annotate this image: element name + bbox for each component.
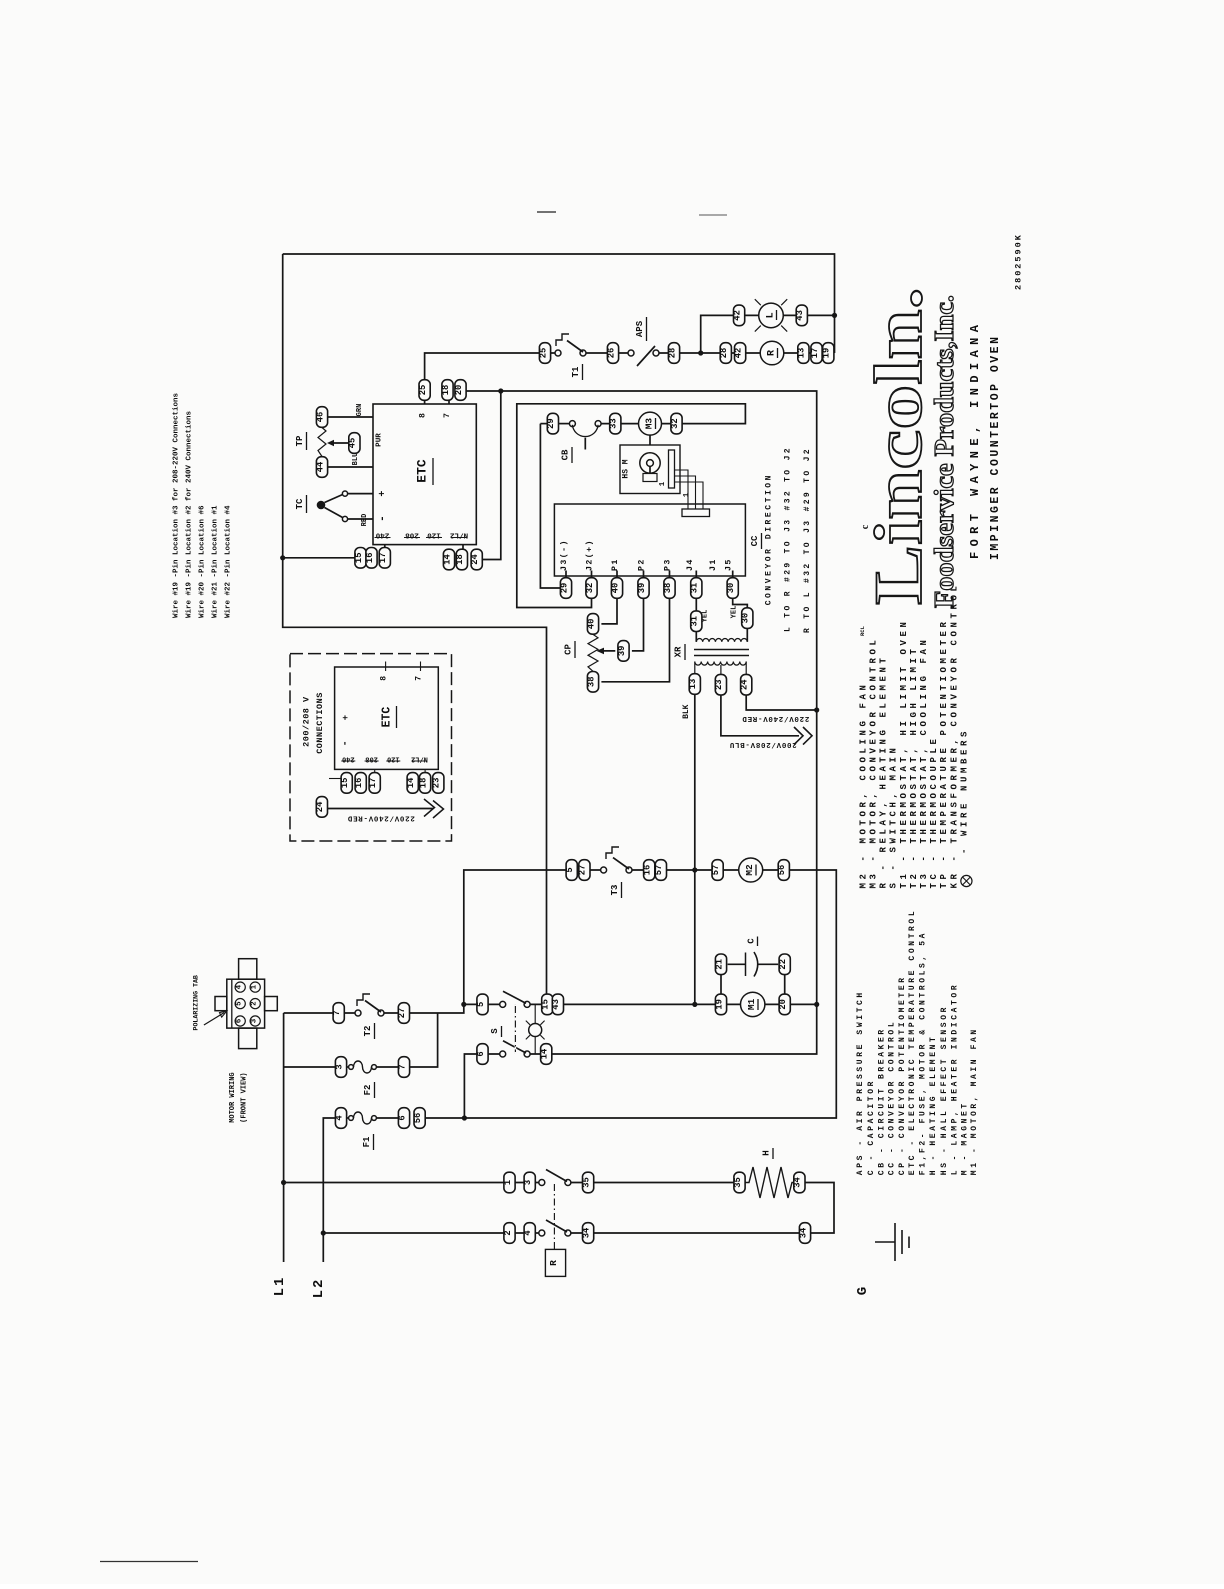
svg-text:CC - CONVEYOR CONTROL: CC - CONVEYOR CONTROL [888,1020,897,1175]
svg-text:M2 - MOTOR, COOLING FAN: M2 - MOTOR, COOLING FAN [858,681,868,888]
svg-text:-: - [377,515,389,522]
svg-text:HS M: HS M [622,459,631,478]
svg-text:J2(+): J2(+) [585,539,595,571]
svg-text:Wire #20 -Pin Location #6: Wire #20 -Pin Location #6 [198,505,206,618]
svg-text:22: 22 [778,959,788,970]
svg-text:PUR: PUR [376,433,384,447]
svg-text:YEL: YEL [702,610,710,623]
svg-text:J1: J1 [709,558,718,571]
svg-text:R - RELAY, HEATING ELEMENT: R - RELAY, HEATING ELEMENT [879,654,889,888]
svg-text:2802590K: 2802590K [1014,233,1024,290]
svg-text:44: 44 [315,461,325,472]
svg-text:M3: M3 [644,418,655,430]
svg-text:C - CAPACITOR: C - CAPACITOR [867,1079,876,1175]
svg-text:H - HEATING ELEMENT: H - HEATING ELEMENT [929,1035,938,1176]
svg-text:J5: J5 [725,558,734,571]
svg-text:14: 14 [406,777,416,788]
svg-text:31: 31 [690,583,700,594]
svg-text:4: 4 [334,1115,344,1121]
svg-text:28: 28 [719,348,729,359]
svg-text:34: 34 [581,1227,591,1238]
svg-text:24: 24 [470,554,480,565]
svg-text:C: C [747,938,757,944]
svg-text:XR: XR [674,646,684,657]
svg-text:T2: T2 [363,1026,373,1037]
svg-text:220V/240V-RED: 220V/240V-RED [742,714,810,722]
svg-text:40: 40 [610,583,620,594]
svg-text:45: 45 [348,438,358,449]
svg-text:21: 21 [714,959,724,970]
svg-text:L1: L1 [272,1276,288,1297]
svg-text:32: 32 [670,418,680,429]
svg-text:-: - [341,740,352,746]
svg-text:1: 1 [251,984,259,989]
svg-text:23: 23 [432,778,442,789]
svg-text:7: 7 [443,413,452,418]
svg-text:17: 17 [378,553,388,564]
svg-text:+: + [341,715,351,720]
svg-text:RCL: RCL [859,625,866,636]
svg-text:29: 29 [559,583,569,594]
svg-text:15: 15 [541,999,551,1010]
svg-text:Wire #22 -Pin Location #4: Wire #22 -Pin Location #4 [225,505,233,618]
svg-text:33: 33 [609,418,619,429]
svg-text:25: 25 [538,348,548,359]
svg-text:28: 28 [667,348,677,359]
svg-text:GRN: GRN [356,404,364,417]
svg-text:17: 17 [810,348,820,359]
svg-text:L - LAMP, HEATER INDICATOR: L - LAMP, HEATER INDICATOR [950,983,959,1175]
svg-text:56: 56 [777,865,787,876]
svg-text:R: R [767,350,778,356]
svg-text:c: c [860,524,871,529]
svg-text:200/208 V: 200/208 V [302,696,312,747]
svg-text:4: 4 [523,1230,533,1236]
svg-text:3: 3 [523,1180,533,1185]
svg-text:+: + [378,491,389,497]
svg-text:23: 23 [714,679,724,690]
svg-text:(FRONT VIEW): (FRONT VIEW) [241,1072,249,1122]
svg-text:39: 39 [617,646,627,657]
svg-text:Wire #19 -Pin Location #2 for: Wire #19 -Pin Location #2 for 240V Conne… [185,410,193,618]
svg-text:P1: P1 [611,558,620,571]
svg-text:40: 40 [586,619,596,630]
svg-text:38: 38 [663,583,673,594]
svg-text:CB - CIRCUIT BREAKER: CB - CIRCUIT BREAKER [878,1027,887,1175]
svg-text:RED: RED [361,514,369,527]
svg-text:M - MAGNET: M - MAGNET [961,1101,970,1175]
svg-text:MOTOR WIRING: MOTOR WIRING [229,1072,237,1122]
svg-text:220V/240V-RED: 220V/240V-RED [347,814,415,822]
svg-text:Lincoln.: Lincoln. [860,287,936,605]
svg-text:27: 27 [397,1008,407,1019]
svg-text:CP - CONVEYOR POTENTIOMETER: CP - CONVEYOR POTENTIOMETER [898,975,907,1175]
svg-text:KR - TRANSFORMER, CONVEYOR CO: KR - TRANSFORMER, CONVEYOR CONTROL [949,582,959,888]
svg-text:35: 35 [733,1177,743,1188]
svg-text:J3(-): J3(-) [559,539,569,571]
svg-text:S: S [490,1028,500,1034]
svg-text:27: 27 [578,865,588,876]
svg-text:24: 24 [315,801,325,812]
svg-text:18: 18 [455,554,465,565]
svg-text:APS: APS [635,320,645,337]
svg-text:J4: J4 [686,558,695,571]
svg-text:POLARIZING TAB: POLARIZING TAB [193,975,200,1030]
svg-text:2: 2 [503,1230,513,1235]
svg-text:15: 15 [340,778,350,789]
svg-text:6: 6 [397,1115,407,1120]
svg-text:P2: P2 [638,558,647,571]
svg-text:7: 7 [397,1064,407,1069]
svg-text:ETC: ETC [415,459,430,483]
svg-text:HS - HALL EFFECT SENSOR: HS - HALL EFFECT SENSOR [940,1005,949,1175]
svg-text:38: 38 [586,677,596,688]
svg-text:42: 42 [732,310,742,321]
svg-text:31: 31 [690,616,700,627]
svg-text:CONNECTIONS: CONNECTIONS [315,692,325,754]
svg-text:18: 18 [441,385,451,396]
svg-text:L TO R #29 TO J3 #32 TO J2: L TO R #29 TO J3 #32 TO J2 [784,446,793,632]
svg-text:TC - THERMOCOUPLE: TC - THERMOCOUPLE [929,735,939,888]
svg-text:- WIRE NUMBERS: - WIRE NUMBERS [959,728,969,854]
svg-text:YEL: YEL [731,606,739,619]
svg-text:29: 29 [546,418,556,429]
svg-text:ETC - ELECTRONIC TEMPERATURE C: ETC - ELECTRONIC TEMPERATURE CONTROL [908,909,917,1175]
svg-text:16: 16 [643,865,653,876]
svg-text:M3 - MOTOR, CONVEYOR CONTROL: M3 - MOTOR, CONVEYOR CONTROL [869,636,879,888]
svg-text:R TO L #32 TO J3 #29 TO J2: R TO L #32 TO J3 #29 TO J2 [803,447,812,633]
svg-text:7: 7 [332,1010,342,1015]
svg-text:P3: P3 [664,558,673,571]
svg-text:6: 6 [476,1051,486,1056]
svg-text:T1: T1 [571,366,581,377]
svg-text:L2: L2 [311,1278,327,1299]
svg-text:16: 16 [354,778,364,789]
svg-text:25: 25 [418,385,428,396]
svg-text:19: 19 [714,999,724,1010]
svg-text:3: 3 [251,1018,259,1023]
svg-text:TP - TEMPERATURE POTENTIOMETE: TP - TEMPERATURE POTENTIOMETER [939,618,949,888]
svg-text:18: 18 [418,778,428,789]
svg-text:8: 8 [380,676,389,681]
svg-text:Wire #21 -Pin Location #1: Wire #21 -Pin Location #1 [211,505,219,618]
svg-text:BLU: BLU [352,453,360,466]
svg-text:14: 14 [442,554,452,565]
svg-text:Wire #19 -Pin Location #3 for: Wire #19 -Pin Location #3 for 208-220V C… [172,392,180,618]
svg-text:1: 1 [659,481,667,486]
svg-text:CC: CC [750,535,760,546]
svg-text:CP: CP [564,644,574,655]
svg-text:35: 35 [581,1177,591,1188]
svg-text:56: 56 [413,1113,423,1124]
svg-text:30: 30 [726,583,736,594]
svg-text:M1: M1 [746,998,757,1010]
svg-text:57: 57 [654,865,664,876]
svg-text:43: 43 [551,999,561,1010]
svg-text:T3 - THERMOSTAT, COOLING FAN: T3 - THERMOSTAT, COOLING FAN [919,636,929,888]
svg-text:46: 46 [315,412,325,423]
svg-text:34: 34 [793,1177,803,1188]
svg-text:H: H [761,1150,772,1156]
svg-text:T3: T3 [610,885,620,896]
svg-text:CB: CB [561,449,571,460]
svg-text:F1: F1 [362,1136,372,1147]
svg-text:20: 20 [778,999,788,1010]
svg-text:1: 1 [683,492,691,497]
svg-text:13: 13 [688,679,698,690]
svg-text:13: 13 [797,348,807,359]
svg-text:T1 - THERMOSTAT, HI LIMIT OVE: T1 - THERMOSTAT, HI LIMIT OVEN [899,618,909,888]
svg-text:3: 3 [334,1064,344,1069]
svg-text:5: 5 [565,867,575,872]
svg-text:F1,F2- FUSE, MOTOR & CONTROLS,: F1,F2- FUSE, MOTOR & CONTROLS, 5A [919,931,928,1175]
svg-text:57: 57 [711,865,721,876]
svg-text:6: 6 [236,1018,244,1023]
svg-text:2: 2 [251,1001,259,1006]
svg-text:TP: TP [295,435,305,446]
svg-text:7: 7 [415,676,424,681]
svg-text:15: 15 [354,553,364,564]
svg-text:4: 4 [236,984,244,989]
svg-text:200V/208V-BLU: 200V/208V-BLU [729,740,797,748]
svg-text:TC: TC [295,498,305,509]
svg-text:20: 20 [454,385,464,396]
svg-text:17: 17 [368,778,378,789]
svg-text:F2: F2 [363,1085,373,1096]
svg-text:R: R [548,1260,559,1266]
svg-text:34: 34 [798,1227,808,1238]
svg-text:G: G [855,1287,871,1295]
svg-text:BLK: BLK [682,704,691,719]
svg-text:L: L [766,312,777,318]
svg-text:Foodservice Products,Inc.: Foodservice Products,Inc. [929,295,959,608]
svg-text:26: 26 [606,348,616,359]
svg-text:39: 39 [637,583,647,594]
svg-text:14: 14 [540,1048,550,1059]
svg-text:M2: M2 [744,864,755,876]
svg-text:42: 42 [733,348,743,359]
svg-text:APS - AIR PRESSURE SWITCH: APS - AIR PRESSURE SWITCH [856,990,865,1175]
svg-text:19: 19 [822,348,832,359]
svg-text:S - SWITCH, MAIN: S - SWITCH, MAIN [889,744,899,888]
svg-text:24: 24 [740,679,750,690]
svg-text:ETC: ETC [381,707,394,728]
svg-text:5: 5 [476,1002,486,1007]
svg-text:M1 - MOTOR, MAIN FAN: M1 - MOTOR, MAIN FAN [970,1027,979,1175]
svg-text:30: 30 [741,613,751,624]
svg-text:43: 43 [795,310,805,321]
svg-text:16: 16 [365,553,375,564]
svg-text:CONVEYOR DIRECTION: CONVEYOR DIRECTION [765,473,774,605]
svg-text:32: 32 [585,583,595,594]
svg-text:5: 5 [236,1001,244,1006]
svg-text:T2 - THERMOSTAT, HIGH LIMIT: T2 - THERMOSTAT, HIGH LIMIT [909,645,919,888]
svg-text:8: 8 [419,413,428,418]
svg-text:1: 1 [503,1180,513,1185]
